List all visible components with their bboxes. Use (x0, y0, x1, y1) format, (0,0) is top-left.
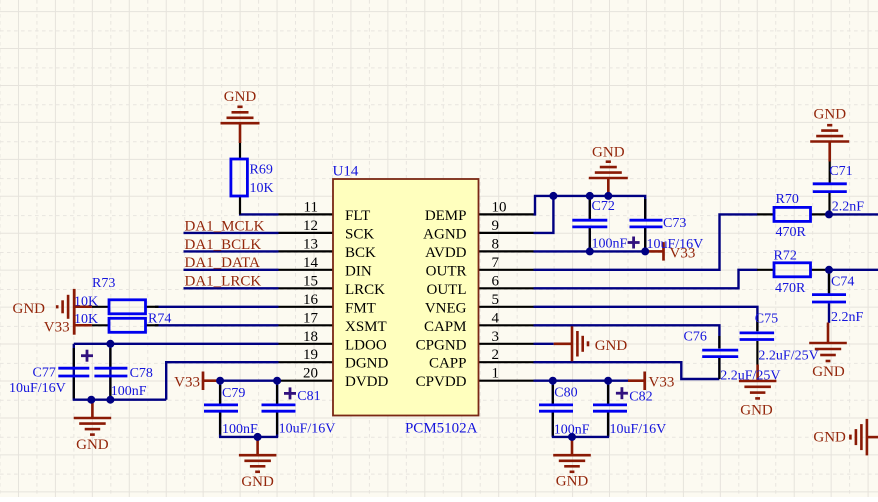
svg-text:XSMT: XSMT (345, 319, 387, 335)
svg-text:GND: GND (595, 338, 628, 354)
svg-text:LDOO: LDOO (345, 337, 387, 353)
svg-text:1: 1 (492, 366, 500, 382)
svg-text:OUTR: OUTR (426, 263, 467, 279)
svg-text:17: 17 (303, 310, 319, 326)
svg-text:100nF: 100nF (554, 422, 590, 437)
svg-text:C75: C75 (755, 311, 778, 326)
svg-text:R70: R70 (776, 192, 799, 207)
svg-text:CPGND: CPGND (416, 337, 467, 353)
svg-text:2: 2 (492, 347, 500, 363)
svg-text:CAPP: CAPP (429, 356, 467, 372)
svg-text:GND: GND (813, 430, 846, 446)
svg-text:C80: C80 (554, 386, 577, 401)
svg-text:DA1_MCLK: DA1_MCLK (185, 218, 265, 234)
svg-text:2.2nF: 2.2nF (831, 310, 864, 325)
svg-text:10uF/16V: 10uF/16V (9, 381, 66, 396)
svg-text:DA1_DATA: DA1_DATA (185, 255, 261, 271)
svg-text:C82: C82 (629, 390, 652, 405)
svg-text:100nF: 100nF (592, 237, 628, 252)
svg-text:GND: GND (556, 474, 589, 490)
svg-text:GND: GND (241, 474, 274, 490)
svg-text:R74: R74 (148, 312, 171, 327)
svg-text:GND: GND (592, 144, 625, 160)
svg-text:19: 19 (303, 347, 318, 363)
svg-text:14: 14 (303, 255, 319, 271)
svg-text:15: 15 (303, 273, 318, 289)
svg-text:R72: R72 (774, 249, 797, 264)
svg-text:LRCK: LRCK (345, 282, 385, 298)
svg-text:C77: C77 (33, 366, 56, 381)
svg-text:10: 10 (492, 199, 507, 215)
svg-text:C72: C72 (592, 199, 615, 214)
svg-text:C76: C76 (684, 330, 707, 345)
svg-text:SCK: SCK (345, 226, 374, 242)
svg-text:3: 3 (492, 329, 500, 345)
svg-text:OUTL: OUTL (427, 282, 467, 298)
svg-text:GND: GND (224, 89, 257, 105)
svg-text:FLT: FLT (345, 208, 370, 224)
svg-text:470R: 470R (775, 281, 806, 296)
svg-text:VNEG: VNEG (425, 300, 467, 316)
svg-text:2.2uF/25V: 2.2uF/25V (758, 349, 818, 364)
svg-text:DA1_LRCK: DA1_LRCK (185, 274, 262, 290)
svg-text:DIN: DIN (345, 263, 372, 279)
svg-text:DGND: DGND (345, 356, 388, 372)
svg-text:100nF: 100nF (111, 384, 147, 399)
svg-text:100nF: 100nF (222, 422, 258, 437)
svg-text:2.2uF/25V: 2.2uF/25V (720, 369, 780, 384)
svg-text:8: 8 (492, 236, 500, 252)
svg-text:U14: U14 (333, 164, 359, 180)
svg-text:V33: V33 (44, 320, 70, 336)
svg-text:R69: R69 (250, 163, 273, 178)
svg-text:7: 7 (492, 255, 500, 271)
svg-text:10uF/16V: 10uF/16V (279, 422, 336, 437)
svg-text:AGND: AGND (423, 226, 466, 242)
svg-text:DVDD: DVDD (345, 374, 388, 390)
svg-text:R73: R73 (92, 276, 115, 291)
svg-text:V33: V33 (174, 375, 200, 391)
svg-text:BCK: BCK (345, 245, 376, 261)
svg-text:C81: C81 (297, 389, 320, 404)
svg-text:GND: GND (76, 437, 109, 453)
svg-text:AVDD: AVDD (425, 245, 467, 261)
svg-text:C71: C71 (829, 164, 852, 179)
svg-text:20: 20 (303, 366, 318, 382)
svg-text:DEMP: DEMP (425, 208, 467, 224)
svg-text:V33: V33 (649, 375, 675, 391)
svg-text:6: 6 (492, 273, 500, 289)
svg-text:10K: 10K (74, 295, 98, 310)
svg-text:10uF/16V: 10uF/16V (610, 422, 667, 437)
svg-text:16: 16 (303, 292, 319, 308)
svg-text:C73: C73 (663, 216, 686, 231)
svg-text:5: 5 (492, 292, 500, 308)
svg-text:4: 4 (492, 310, 500, 326)
svg-text:9: 9 (492, 218, 500, 234)
svg-text:470R: 470R (776, 225, 807, 240)
svg-text:FMT: FMT (345, 300, 376, 316)
svg-text:CAPM: CAPM (424, 319, 467, 335)
svg-text:2.2nF: 2.2nF (832, 200, 865, 215)
svg-text:10K: 10K (74, 312, 98, 327)
svg-text:GND: GND (814, 106, 847, 122)
svg-text:V33: V33 (670, 246, 696, 262)
svg-text:C79: C79 (222, 386, 245, 401)
svg-text:CPVDD: CPVDD (416, 374, 467, 390)
svg-text:GND: GND (812, 364, 845, 380)
svg-text:PCM5102A: PCM5102A (405, 421, 478, 437)
svg-text:DA1_BCLK: DA1_BCLK (185, 237, 262, 253)
svg-text:C74: C74 (831, 274, 854, 289)
svg-text:GND: GND (13, 301, 46, 317)
svg-text:13: 13 (303, 236, 318, 252)
svg-text:GND: GND (740, 403, 773, 419)
svg-text:12: 12 (303, 218, 318, 234)
svg-text:C78: C78 (130, 366, 153, 381)
svg-text:18: 18 (303, 329, 318, 345)
svg-text:10K: 10K (250, 181, 274, 196)
svg-text:11: 11 (304, 199, 318, 215)
